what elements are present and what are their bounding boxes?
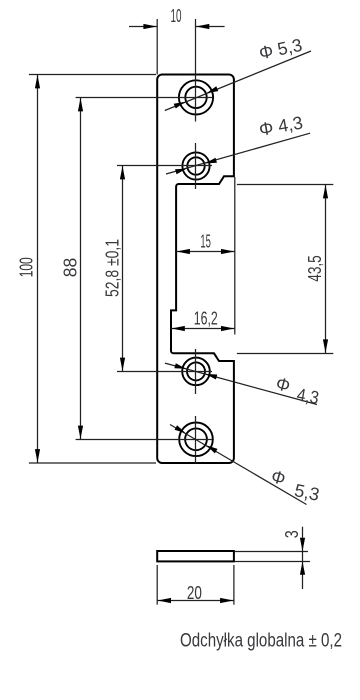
- hole H3 drill circle (4.3mm): [187, 362, 205, 380]
- hole H2 drill circle (4.3mm): [187, 157, 204, 174]
- hole H1 vertical centerline / extension for dim 10: [195, 19, 197, 122]
- dim 20 right extension line: [233, 565, 235, 605]
- leader line for hole H1 diameter: [165, 51, 311, 111]
- dim 16,2 dimension line: [171, 328, 235, 330]
- dim 43,5 dimension line: [325, 185, 327, 354]
- hole H2 countersink outer circle: [182, 152, 209, 179]
- dim 43,5 top extension line: [237, 184, 333, 186]
- svg-text:88: 88: [61, 258, 81, 278]
- dim 10 dimension line left tail with arrow: [129, 26, 157, 28]
- dim 10 dimension line right tail with arrow: [196, 26, 225, 28]
- svg-text:15: 15: [200, 232, 211, 252]
- hole H4 vertical centerline: [195, 416, 197, 464]
- dim 20 dimension line: [157, 600, 234, 602]
- extension line below lip (right edge of cutout): [234, 177, 236, 335]
- dim 100 top extension line: [29, 74, 156, 76]
- svg-text:100: 100: [16, 257, 36, 277]
- svg-text:20: 20: [187, 583, 202, 603]
- dim 3 dimension line: [302, 527, 304, 589]
- dim 52.8 dimension line: [122, 166, 124, 372]
- hole H4 countersink outer circle: [179, 423, 213, 457]
- plate outline (front view): [157, 75, 234, 464]
- dim 3 bottom extension line: [235, 561, 310, 563]
- svg-text:Odchyłka globalna ± 0,2: Odchyłka globalna ± 0,2: [180, 630, 342, 651]
- hole H4 drill circle (5.3mm): [185, 428, 207, 450]
- leader line for hole H4 diameter: [170, 425, 307, 505]
- hole H2 horizontal centerline / extension for dim 52.8 top: [117, 165, 212, 167]
- dim 3 top extension line: [235, 551, 308, 553]
- dim 43,5 bottom extension line: [237, 353, 333, 355]
- dim 100 bottom extension line: [29, 462, 156, 464]
- hole H3 countersink outer circle: [182, 358, 210, 386]
- dim 100 dimension line: [37, 75, 39, 464]
- dim 10 left extension line: [156, 19, 158, 75]
- svg-text:52,8 ±0,1: 52,8 ±0,1: [103, 239, 123, 297]
- svg-text:43,5: 43,5: [305, 255, 325, 282]
- dim 20 left extension line: [156, 565, 158, 605]
- hole H3 vertical centerline: [195, 349, 197, 394]
- dim 88 dimension line: [80, 98, 82, 440]
- dim 15 dimension line: [176, 251, 235, 253]
- hole H3 horizontal centerline / extension for dim 52.8 bottom: [117, 371, 212, 373]
- hole H1 drill circle (5.3mm): [185, 87, 206, 108]
- svg-text:16,2: 16,2: [194, 309, 218, 329]
- leader line for hole H2 diameter: [166, 133, 310, 174]
- svg-text:4,3: 4,3: [295, 384, 320, 408]
- leader line for hole H3 diameter: [165, 363, 317, 404]
- hole H1 countersink outer circle: [179, 80, 213, 114]
- hole H1 horizontal centerline / extension for dim 88 top: [76, 97, 212, 99]
- svg-text:10: 10: [171, 6, 182, 26]
- profile view rectangle (side view, 3mm thick): [157, 551, 234, 561]
- svg-text:3: 3: [282, 530, 302, 538]
- hole H4 horizontal centerline / extension for dim 88 bottom: [76, 439, 212, 441]
- hole H2 vertical centerline: [195, 143, 197, 189]
